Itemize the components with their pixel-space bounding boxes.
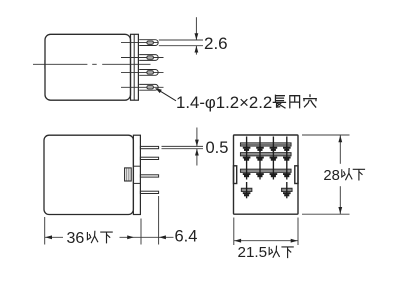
terminal pin 1 (view A) <box>121 42 158 44</box>
dimension 28max extension lines <box>302 134 350 136</box>
hole label leader arrow <box>158 89 177 100</box>
latch detail <box>125 168 132 181</box>
terminal pin 2 (view A) <box>121 57 164 59</box>
pin row 2 col 4 <box>286 146 288 163</box>
svg-text:2.6: 2.6 <box>204 34 228 53</box>
pin row 3 col 4 <box>286 163 288 180</box>
terminal pin 3 (view B) <box>140 175 158 177</box>
svg-text:21.5: 21.5 <box>238 244 268 261</box>
pin row 2 col 1 <box>246 146 248 163</box>
dimension 2.6 leader <box>195 17 197 40</box>
dimension 21.5max line <box>234 240 298 242</box>
dimension 6.4 extension lines <box>140 219 142 245</box>
oblong hole pin 3 <box>147 71 154 75</box>
pin row 3 col 1 <box>246 163 248 180</box>
terminal pin 2 (view B) <box>140 157 158 159</box>
pin row 2 col 3 <box>272 146 274 163</box>
svg-text:28: 28 <box>323 168 339 184</box>
pin row 4 col 1 <box>241 188 251 191</box>
dimension 21.5max extension lines <box>233 218 235 246</box>
pin row 1 col 4 <box>286 137 288 154</box>
svg-text:1.4-φ1.2×2.2: 1.4-φ1.2×2.2 <box>176 93 272 112</box>
dimension 36max line <box>45 236 63 238</box>
terminal pin 3 (view A) <box>121 71 164 73</box>
terminal pin 1 (view B) <box>140 146 158 148</box>
mounting flange (view B) <box>133 135 140 214</box>
pin row 1 col 1 <box>246 137 248 154</box>
centerline <box>33 63 87 65</box>
dimension 36max extension line left <box>44 217 46 245</box>
pin row 3 col 3 <box>272 163 274 180</box>
oblong hole pin 1 <box>147 41 154 45</box>
terminal pin 4 (view B) <box>140 191 158 193</box>
svg-text:36: 36 <box>67 230 85 247</box>
terminal bar row 3 (rear view) <box>241 169 292 172</box>
oblong hole pin 2 <box>147 56 154 60</box>
dimension 28max line <box>339 135 341 164</box>
oblong hole pin 4 <box>147 86 154 90</box>
pin row 1 col 2 <box>259 137 261 154</box>
relay rear view outline <box>234 135 299 214</box>
svg-text:6.4: 6.4 <box>175 227 198 245</box>
mounting flange (view A) <box>131 34 139 100</box>
dimension 0.5 extension lines <box>162 145 204 147</box>
dimension 0.5 leader <box>196 128 198 147</box>
pin row 4 col 2 <box>282 188 292 191</box>
svg-text:0.5: 0.5 <box>206 139 229 157</box>
center tick <box>44 60 46 69</box>
terminal pin 4 (view A) <box>121 86 164 88</box>
terminal bar row 2 (rear view) <box>241 153 292 156</box>
left side notch <box>234 166 237 184</box>
pin row 1 col 3 <box>272 137 274 154</box>
terminal bar row 1 (rear view) <box>241 143 292 146</box>
dimension 2.6 extension lines <box>159 39 203 41</box>
right side notch <box>295 166 298 184</box>
pin row 2 col 2 <box>259 146 261 163</box>
pin row 3 col 2 <box>259 163 261 180</box>
relay body (side view B) <box>44 135 133 214</box>
relay body (side view A) <box>45 34 131 100</box>
